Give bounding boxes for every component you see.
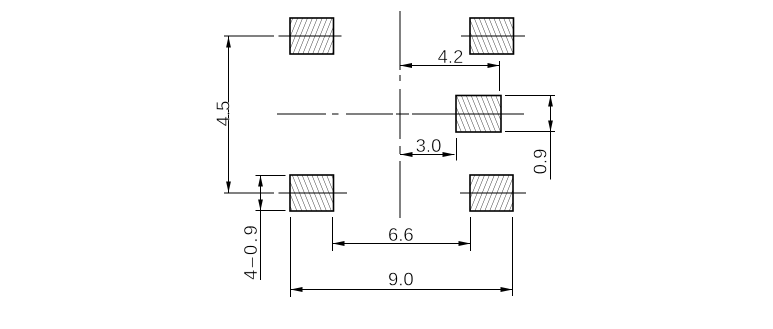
pad P5 bottom-right [470,175,513,211]
wire: center line through pad P5 [460,192,526,194]
dimension 0.9 (right, pad P3 height) [505,96,555,180]
pad P3 middle-right [456,96,501,133]
svg-text:0.9: 0.9 [530,149,551,175]
dimension 9.0 [291,217,513,297]
pad P1 top-left [290,18,334,54]
wire: vertical main center line (dash-dot) [399,11,401,218]
svg-text:4.2: 4.2 [438,46,464,67]
dimension 4.5 (left) [212,36,274,193]
dimension 4.2 [400,46,500,91]
dimension 3.0 [400,135,457,161]
wire: horizontal main center line (dash-dot) [277,113,524,115]
pad P2 top-right [470,18,514,54]
svg-text:9.0: 9.0 [388,269,414,290]
svg-text:4.5: 4.5 [212,101,233,127]
wire: center line through pad P2 [461,35,525,37]
svg-text:3.0: 3.0 [416,135,442,156]
wire: center line through pad P1 [279,35,342,37]
pad P4 bottom-left [290,175,334,211]
svg-text:4–0.9: 4–0.9 [240,223,261,280]
wire: center line through pad P4 [279,192,347,194]
svg-text:6.6: 6.6 [388,224,414,245]
dimension 4-0.9 (pad P4 height) [240,176,286,281]
dimension 6.6 [333,217,471,251]
